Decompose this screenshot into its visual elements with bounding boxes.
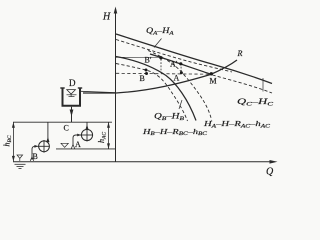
pump A suction elbow <box>73 135 81 145</box>
curve QA-HA solid <box>116 34 272 84</box>
svg-text:M: M <box>210 77 217 86</box>
static level line from tank to axis <box>81 91 116 92</box>
reservoir A floor <box>56 148 116 150</box>
R curve solid <box>83 60 237 93</box>
point B' dot <box>145 69 148 72</box>
dashed vertical A' to A <box>180 64 183 73</box>
tank D walls <box>63 88 81 106</box>
tank D rim ticks <box>60 87 64 89</box>
pump B suction foot <box>30 157 33 161</box>
dashed companion curve below QA-HA <box>116 40 232 73</box>
QA-HA leader <box>154 39 162 48</box>
reservoir B water symbol <box>17 155 23 158</box>
svg-text:A: A <box>174 74 180 83</box>
pump A discharge pipe with up arrow <box>86 122 88 141</box>
dashed curve B reduced <box>116 64 188 122</box>
QB-HB leader <box>179 100 182 109</box>
hAC dimension line <box>108 122 110 149</box>
QC-HC leader tick <box>262 78 264 92</box>
main pipe line at C level <box>13 121 112 123</box>
drop pipe arrow down <box>70 110 74 117</box>
combined curve solid through M <box>150 54 211 74</box>
point A' dot <box>179 62 182 65</box>
tank D water symbol <box>67 90 76 94</box>
dashed extension of combined curve beyond M <box>213 75 273 93</box>
hBC dimension line <box>12 122 14 161</box>
pump A suction foot <box>71 145 74 149</box>
svg-text:D: D <box>69 78 76 88</box>
svg-text:C: C <box>64 124 69 133</box>
svg-text:H: H <box>102 12 111 23</box>
curve QB-HB solid <box>116 57 196 121</box>
point B dot <box>145 72 148 75</box>
svg-text:B′: B′ <box>145 56 152 65</box>
drop pipe from tank <box>71 107 73 122</box>
svg-text:A′: A′ <box>170 60 178 69</box>
thin line axis to crossing dot <box>116 56 161 58</box>
dashed horizontal M line <box>116 72 211 75</box>
point M dot <box>210 72 213 75</box>
reservoir A water symbol <box>61 143 68 147</box>
Q axis arrowhead <box>270 160 278 164</box>
svg-text:R: R <box>237 49 243 58</box>
point A dot <box>180 71 183 74</box>
H axis <box>115 10 117 162</box>
dashed vertical from crossing dot to M line <box>160 59 162 73</box>
dashed curve A reduced plunging <box>148 51 212 121</box>
pump A <box>81 129 92 140</box>
svg-text:A: A <box>75 140 81 149</box>
H axis arrowhead <box>114 7 118 14</box>
pump B <box>39 141 50 152</box>
ground hatch under reservoir B <box>15 163 26 165</box>
Q axis <box>13 161 274 163</box>
svg-text:Q: Q <box>266 167 274 178</box>
pump B discharge pipe with up arrow <box>47 122 49 142</box>
pump B suction elbow <box>32 146 39 159</box>
crossing dot <box>159 56 162 59</box>
svg-text:B: B <box>140 74 145 83</box>
